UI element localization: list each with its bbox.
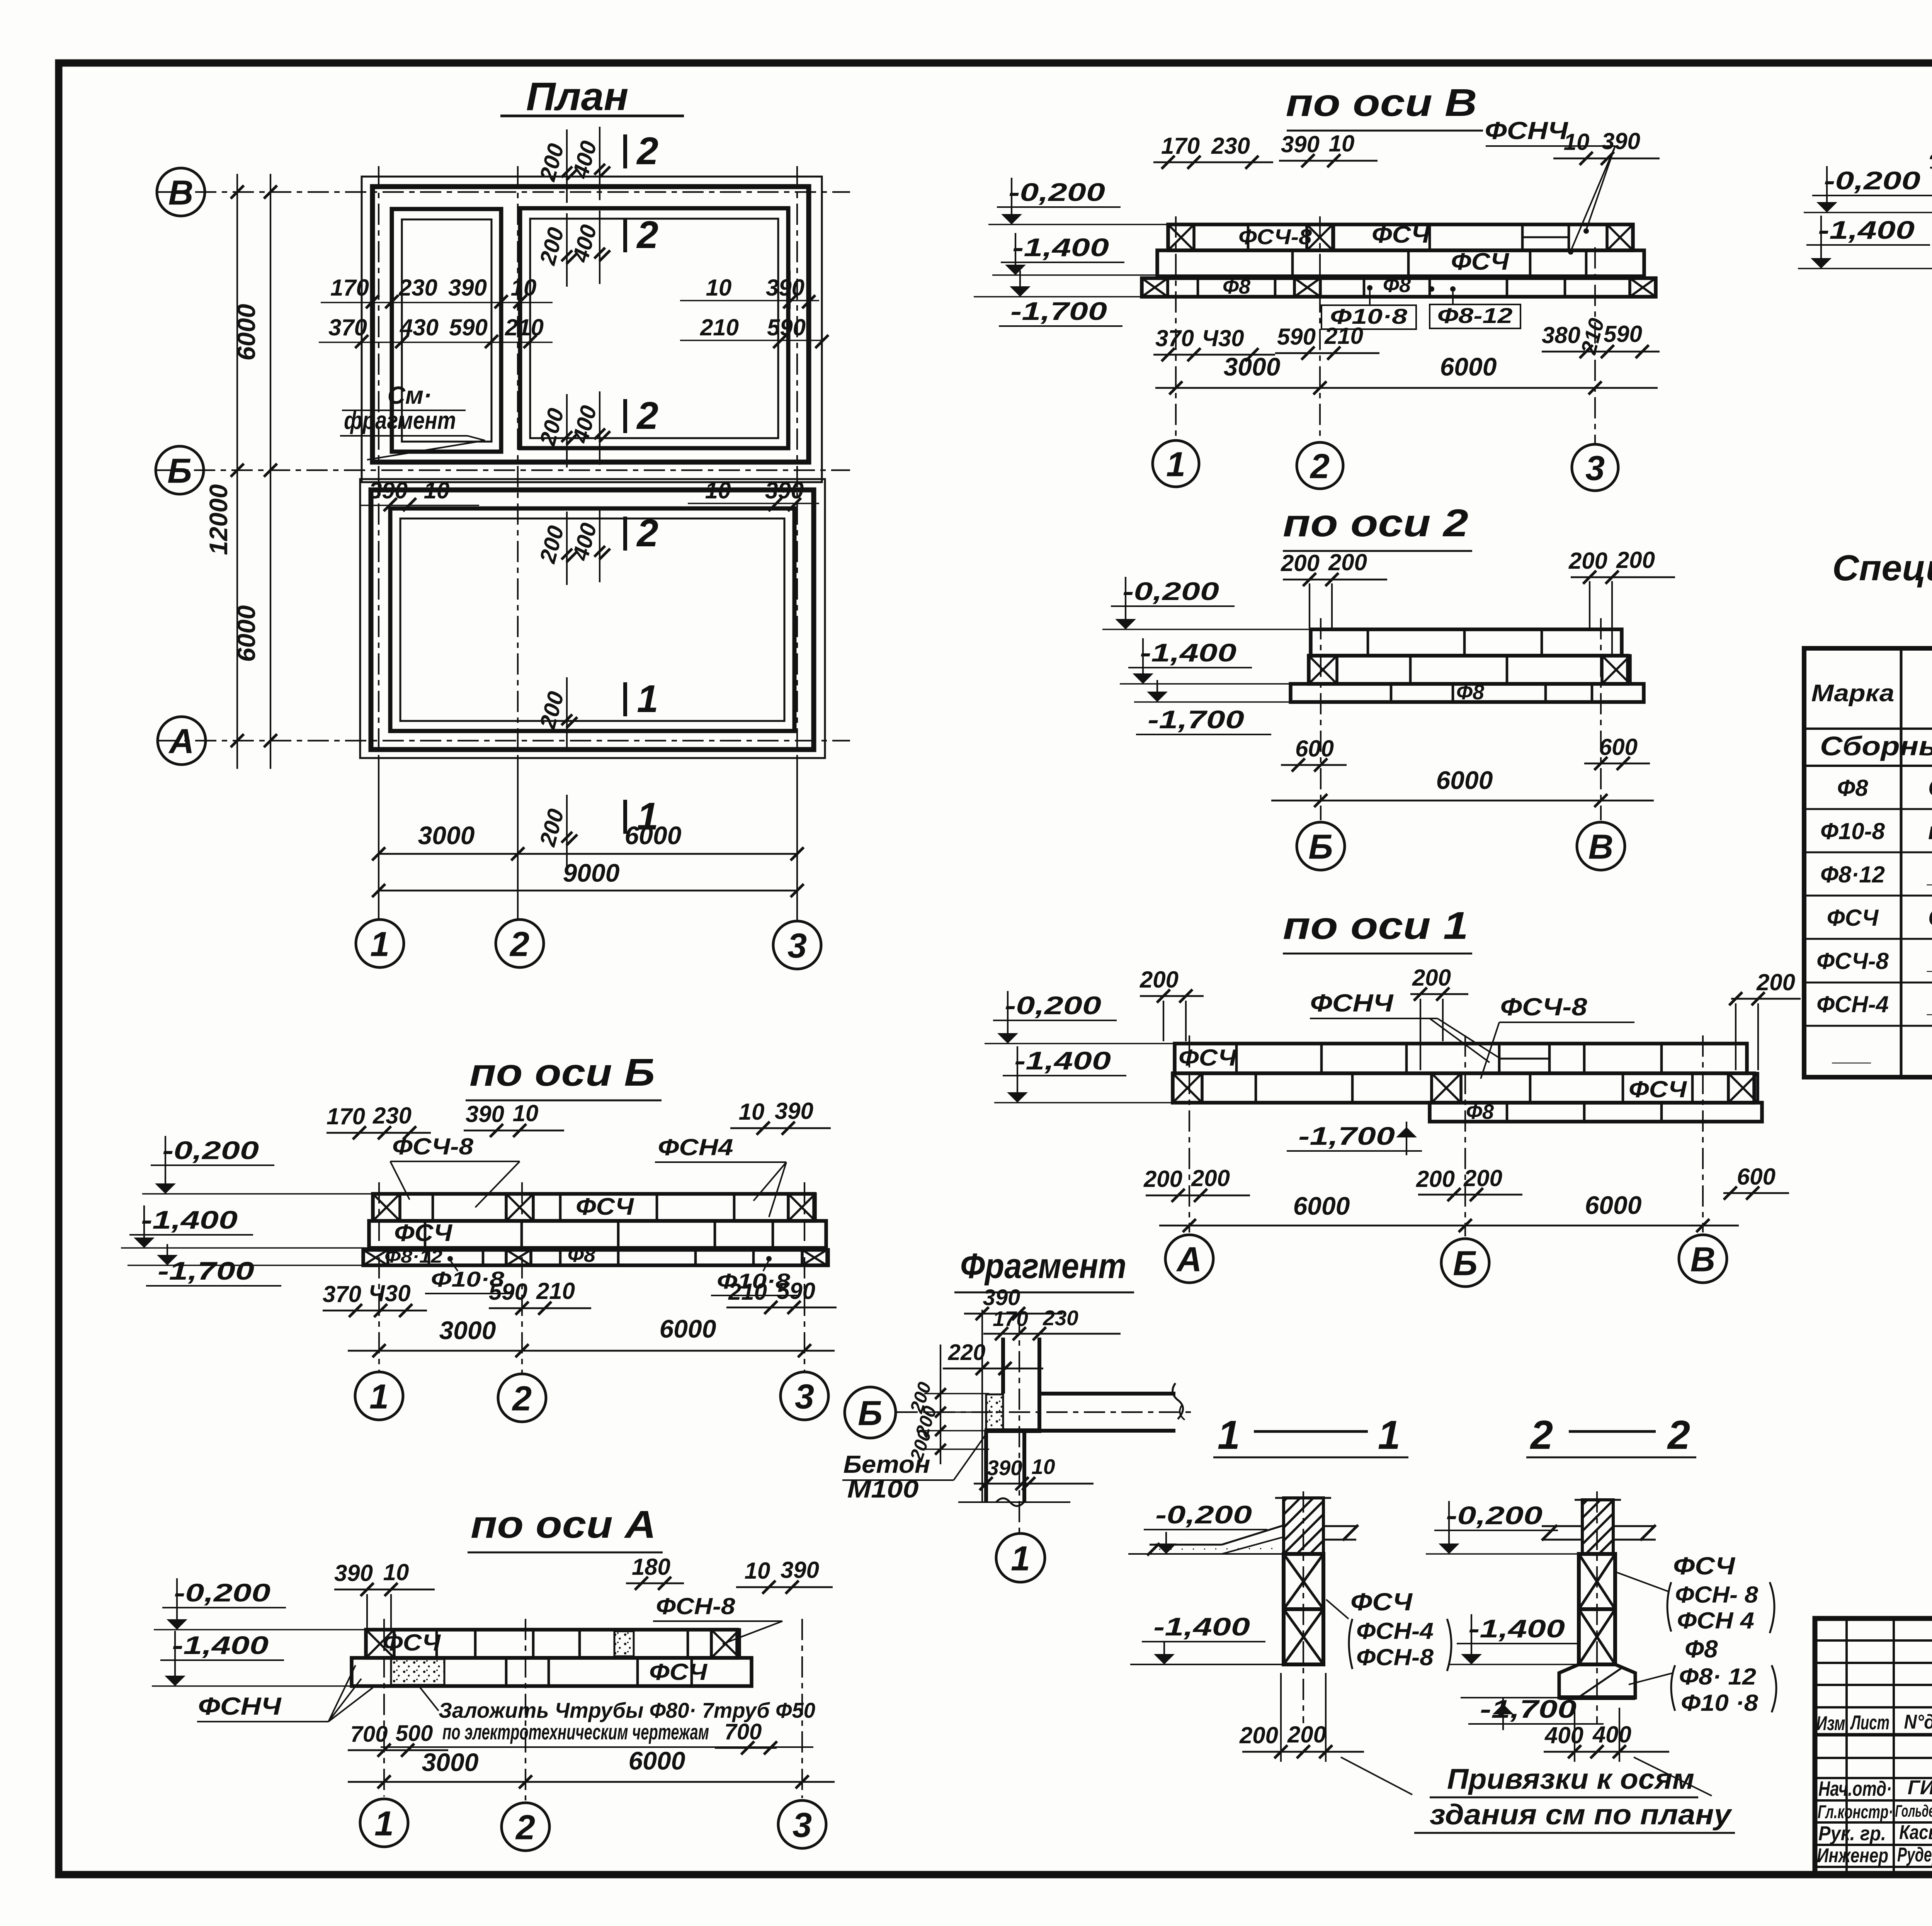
- svg-text:10: 10: [424, 478, 450, 503]
- svg-text:200: 200: [1416, 1166, 1455, 1192]
- svg-text:Ф8-12: Ф8-12: [1437, 303, 1513, 328]
- svg-text:500: 500: [396, 1721, 433, 1746]
- svg-text:590: 590: [777, 1278, 815, 1304]
- po osi V axis circles: [1153, 440, 1199, 487]
- svg-text:-1,400: -1,400: [1140, 638, 1236, 667]
- svg-text:Б: Б: [1308, 828, 1333, 866]
- svg-text:Гл.констр·: Гл.констр·: [1818, 1802, 1893, 1822]
- svg-text:1: 1: [1378, 1413, 1400, 1458]
- svg-text:Нач.отд·: Нач.отд·: [1818, 1777, 1892, 1800]
- svg-text:здания см по плану: здания см по плану: [1430, 1799, 1733, 1831]
- svg-text:Серия 1.112-1 вып.1: Серия 1.112-1 вып.1: [1928, 775, 1932, 801]
- svg-text:ФСЧ: ФСЧ: [394, 1220, 452, 1246]
- fragment axis 1 circle: [996, 1533, 1045, 1582]
- svg-text:380: 380: [1542, 322, 1580, 348]
- svg-text:Сборные железобетонные и бетон: Сборные железобетонные и бетонные элемен…: [1820, 731, 1932, 761]
- svg-text:200: 200: [1191, 1165, 1230, 1191]
- svg-text:12000: 12000: [204, 484, 233, 555]
- svg-text:1: 1: [369, 1377, 389, 1416]
- svg-text:-1,400: -1,400: [1012, 233, 1109, 262]
- svg-text:400: 400: [1592, 1722, 1631, 1748]
- svg-text:-0,200: -0,200: [1009, 178, 1105, 206]
- svg-text:3000: 3000: [439, 1316, 496, 1345]
- svg-text:200: 200: [1756, 969, 1795, 995]
- svg-text:590: 590: [1277, 324, 1316, 350]
- po osi A axis circles: [360, 1799, 408, 1847]
- note leader lines: [1341, 1757, 1412, 1795]
- section 2-2 floor stubs: [1542, 1525, 1582, 1527]
- svg-text:700: 700: [350, 1722, 388, 1747]
- svg-text:ФСЧ: ФСЧ: [576, 1193, 634, 1220]
- svg-text:ФСЧ-8: ФСЧ-8: [1816, 948, 1889, 974]
- svg-text:ФСЧ: ФСЧ: [1372, 221, 1430, 248]
- svg-text:200: 200: [1412, 965, 1451, 991]
- svg-text:Касьянова: Касьянова: [1899, 1821, 1932, 1844]
- svg-text:ФСЧ: ФСЧ: [1673, 1552, 1736, 1580]
- svg-text:-1,400: -1,400: [1818, 216, 1915, 244]
- title block left revision grid: [1815, 1639, 1932, 1642]
- svg-text:600: 600: [1599, 734, 1638, 760]
- svg-text:3000: 3000: [418, 821, 475, 850]
- svg-text:230: 230: [372, 1103, 412, 1129]
- svg-text:ФСЧ-8: ФСЧ-8: [1500, 993, 1587, 1021]
- svg-text:-1,400: -1,400: [1468, 1614, 1565, 1643]
- svg-text:Б: Б: [167, 452, 192, 490]
- svg-text:Лист: Лист: [1850, 1712, 1889, 1734]
- fragment junction bottom edge: [985, 1428, 1041, 1433]
- plan axis circles bottom: [356, 920, 404, 967]
- svg-text:9000: 9000: [563, 858, 620, 887]
- svg-text:700: 700: [724, 1719, 762, 1744]
- svg-text:390: 390: [466, 1101, 504, 1127]
- section 2-2 block column: [1579, 1554, 1615, 1609]
- svg-text:210: 210: [728, 1279, 767, 1305]
- svg-text:390: 390: [766, 275, 804, 301]
- svg-text:390: 390: [781, 1557, 819, 1583]
- plan south block outer walls: [371, 490, 814, 750]
- svg-text:Ф8· 12: Ф8· 12: [1679, 1664, 1756, 1690]
- svg-text:ФСН-8: ФСН-8: [1356, 1644, 1434, 1670]
- svg-text:В: В: [1588, 828, 1614, 866]
- plan north block foundation outline: [362, 177, 822, 482]
- svg-text:ФСН- 8: ФСН- 8: [1675, 1582, 1759, 1608]
- svg-text:-1,700: -1,700: [1010, 297, 1107, 325]
- po osi V axis dash-dot lines: [1175, 216, 1177, 439]
- svg-text:Рук. гр.: Рук. гр.: [1818, 1822, 1886, 1845]
- svg-text:ФСЧ: ФСЧ: [383, 1630, 441, 1656]
- svg-text:Ф10-8: Ф10-8: [1820, 818, 1885, 844]
- svg-text:6000: 6000: [1585, 1191, 1642, 1219]
- po osi A wall block rows: [366, 1630, 737, 1658]
- svg-text:ФСН-4: ФСН-4: [1816, 991, 1889, 1017]
- svg-text:10: 10: [706, 275, 732, 301]
- svg-text:3: 3: [793, 1806, 812, 1844]
- section 1-1 floor left with slope: [1128, 1553, 1284, 1555]
- svg-text:2: 2: [512, 1379, 532, 1418]
- svg-text:по оси 1: по оси 1: [1283, 904, 1468, 947]
- svg-text:10: 10: [513, 1100, 539, 1126]
- svg-text:М100: М100: [847, 1475, 919, 1503]
- svg-text:См·: См·: [388, 381, 432, 409]
- specification table grid: [1804, 648, 1932, 1077]
- svg-text:Рудеровская: Рудеровская: [1897, 1844, 1932, 1866]
- svg-text:2: 2: [509, 925, 529, 964]
- svg-text:-1,400: -1,400: [172, 1631, 269, 1659]
- svg-text:Изм: Изм: [1816, 1712, 1845, 1735]
- section 2-2 wall hatched: [1582, 1500, 1613, 1554]
- svg-text:Ф8: Ф8: [1466, 1100, 1494, 1124]
- svg-text:ФСЧ: ФСЧ: [1827, 905, 1879, 931]
- svg-text:200: 200: [1616, 547, 1655, 573]
- svg-text:210: 210: [505, 314, 544, 340]
- po osi 1 foundation plate row: [1430, 1103, 1762, 1122]
- plan south block foundation outline: [360, 479, 825, 758]
- svg-text:Б: Б: [1453, 1244, 1478, 1283]
- svg-text:1: 1: [374, 1804, 394, 1843]
- svg-text:ФСЧ: ФСЧ: [1179, 1045, 1237, 1071]
- svg-text:370: 370: [323, 1281, 361, 1307]
- svg-text:ФСНЧ: ФСНЧ: [1310, 989, 1394, 1017]
- svg-text:230: 230: [1043, 1306, 1078, 1330]
- svg-text:Серия 1.116·1 вып.1: Серия 1.116·1 вып.1: [1928, 904, 1932, 931]
- plan north block outer walls: [372, 187, 809, 462]
- svg-text:200: 200: [1143, 1166, 1182, 1192]
- svg-text:ФСЧ: ФСЧ: [1629, 1076, 1687, 1102]
- svg-text:В: В: [168, 173, 194, 212]
- svg-text:Ф8: Ф8: [1383, 274, 1411, 297]
- plan bottom dimension lines: [379, 853, 797, 855]
- po osi A axis dash-dot lines: [383, 1619, 385, 1797]
- svg-text:А: А: [1176, 1240, 1202, 1279]
- svg-text:200: 200: [1239, 1722, 1278, 1748]
- svg-text:Привязки к осям: Привязки к осям: [1447, 1763, 1694, 1795]
- po osi 1 axis dash-dot lines: [1189, 1035, 1190, 1232]
- svg-text:6000: 6000: [232, 304, 260, 360]
- svg-text:10: 10: [1031, 1455, 1055, 1479]
- svg-text:Спецификация элементов к марки: Спецификация элементов к маркировочной: [1832, 547, 1932, 588]
- svg-text:230: 230: [1211, 133, 1250, 159]
- svg-text:200: 200: [1328, 549, 1367, 575]
- svg-text:10: 10: [705, 478, 731, 503]
- svg-text:Б: Б: [858, 1394, 883, 1433]
- svg-text:2: 2: [1667, 1413, 1690, 1458]
- svg-text:-0,200: -0,200: [162, 1136, 259, 1164]
- svg-text:400: 400: [1544, 1722, 1583, 1748]
- svg-text:10: 10: [383, 1559, 409, 1585]
- svg-text:170: 170: [330, 275, 369, 301]
- fragment horizontal wall to right: [1039, 1392, 1175, 1396]
- plan witness lines at north rooms: [372, 270, 373, 309]
- svg-text:2: 2: [636, 129, 658, 173]
- svg-text:220: 220: [948, 1340, 986, 1365]
- svg-text:то же: то же: [1928, 818, 1932, 845]
- svg-text:1: 1: [370, 925, 389, 964]
- plan south room inner walls: [390, 508, 794, 731]
- svg-text:390: 390: [1281, 131, 1320, 157]
- svg-text:10: 10: [1329, 131, 1355, 156]
- plan axis circles left: [157, 168, 205, 216]
- svg-text:А: А: [168, 722, 194, 761]
- fragment axis B circle: [845, 1387, 896, 1438]
- svg-text:6000: 6000: [1440, 352, 1497, 381]
- svg-text:210: 210: [1324, 323, 1363, 349]
- svg-text:230: 230: [398, 275, 437, 301]
- svg-text:Ф10 ·8: Ф10 ·8: [1681, 1690, 1759, 1716]
- svg-text:1: 1: [1218, 1413, 1240, 1458]
- svg-text:1: 1: [637, 677, 658, 721]
- svg-text:390: 390: [987, 1456, 1022, 1480]
- section 2-2 footing: [1559, 1664, 1635, 1698]
- po osi 1 axis circles: [1165, 1235, 1213, 1283]
- svg-text:200: 200: [1139, 967, 1179, 993]
- svg-text:6000: 6000: [1293, 1192, 1350, 1220]
- svg-text:ФСНЧ: ФСНЧ: [1485, 117, 1569, 144]
- svg-text:390: 390: [448, 275, 487, 301]
- svg-text:6000: 6000: [660, 1314, 716, 1343]
- svg-text:ФСЧ: ФСЧ: [649, 1659, 708, 1685]
- svg-text:1: 1: [1011, 1539, 1030, 1578]
- svg-text:ФСЧ-8: ФСЧ-8: [1238, 224, 1312, 249]
- section 1-1 block column: [1284, 1554, 1323, 1609]
- svg-text:210: 210: [700, 314, 739, 340]
- svg-text:ФСН-4: ФСН-4: [1356, 1618, 1434, 1644]
- svg-text:590: 590: [489, 1279, 527, 1305]
- plan north-west room walls: [392, 209, 501, 452]
- svg-text:2: 2: [1530, 1413, 1553, 1458]
- svg-text:2: 2: [636, 394, 658, 437]
- fragment axis B dash line: [896, 1411, 1192, 1413]
- svg-text:6000: 6000: [1436, 766, 1493, 794]
- svg-text:390: 390: [1602, 128, 1640, 154]
- svg-text:План: План: [526, 74, 629, 119]
- svg-text:Ф8·12: Ф8·12: [1820, 862, 1885, 887]
- svg-text:-1,700: -1,700: [1298, 1122, 1395, 1150]
- po osi V F10-8 F8-12 boxed labels: [1367, 285, 1372, 291]
- svg-text:3: 3: [795, 1377, 814, 1416]
- fragment lower wall plan lines: [984, 1431, 988, 1502]
- svg-text:-1,400: -1,400: [1014, 1046, 1111, 1075]
- svg-text:10: 10: [739, 1099, 765, 1125]
- po osi 2 axis circles: [1297, 822, 1345, 870]
- svg-text:-0,200: -0,200: [1122, 577, 1219, 605]
- svg-text:ФСНЧ: ФСНЧ: [198, 1692, 282, 1720]
- svg-text:Фрагмент: Фрагмент: [960, 1246, 1126, 1286]
- fragment witness line left: [981, 1310, 983, 1502]
- svg-text:Ф8: Ф8: [1456, 681, 1484, 704]
- svg-text:Марка: Марка: [1811, 680, 1895, 707]
- svg-text:Гольденшплюгер: Гольденшплюгер: [1895, 1802, 1932, 1821]
- section 1-1 right floor stub: [1323, 1525, 1356, 1527]
- svg-text:590: 590: [1604, 321, 1642, 347]
- svg-text:200: 200: [1463, 1165, 1502, 1191]
- svg-text:-0,200: -0,200: [1155, 1500, 1252, 1529]
- svg-text:370: 370: [328, 314, 367, 340]
- svg-text:-1,400: -1,400: [141, 1205, 238, 1234]
- svg-text:180: 180: [632, 1554, 670, 1580]
- svg-text:ФСН4: ФСН4: [658, 1134, 733, 1160]
- svg-text:по оси Б: по оси Б: [469, 1051, 655, 1094]
- plan north-east room walls: [520, 208, 788, 448]
- svg-text:ФСН-8: ФСН-8: [656, 1593, 736, 1619]
- section 2-2 axis line: [1596, 1491, 1598, 1723]
- po osi B axis dash-dot lines: [378, 1182, 380, 1371]
- svg-text:2: 2: [1310, 447, 1330, 486]
- svg-text:ФСН 4: ФСН 4: [1677, 1608, 1754, 1634]
- svg-text:-0,200: -0,200: [1005, 991, 1101, 1020]
- section 1-1 wall hatched: [1284, 1498, 1323, 1554]
- svg-text:по оси В: по оси В: [1286, 81, 1477, 124]
- svg-text:ГИЧ: ГИЧ: [1908, 1776, 1932, 1799]
- svg-text:-0,200: -0,200: [174, 1578, 270, 1607]
- svg-text:3: 3: [787, 926, 807, 965]
- svg-text:Бетон: Бетон: [844, 1450, 930, 1478]
- title block outer box: [1815, 1618, 1932, 1875]
- svg-text:2: 2: [515, 1808, 535, 1847]
- svg-text:-1,700: -1,700: [158, 1256, 254, 1285]
- svg-text:2: 2: [636, 213, 658, 257]
- svg-text:600: 600: [1737, 1164, 1776, 1190]
- plan left vertical dimension chain: [236, 174, 238, 769]
- svg-text:Ф8: Ф8: [1223, 275, 1250, 298]
- po osi 2 wall block rows: [1311, 629, 1622, 656]
- fragment axis 1 dash line: [1019, 1314, 1020, 1533]
- svg-text:10: 10: [745, 1558, 770, 1584]
- svg-text:Инженер: Инженер: [1817, 1844, 1888, 1867]
- po osi B foundation plate row: [363, 1250, 828, 1265]
- svg-text:390: 390: [775, 1098, 813, 1124]
- svg-text:ФСЧ: ФСЧ: [1451, 248, 1509, 275]
- svg-text:Заложить Чтрубы Ф80· 7труб Ф5: Заложить Чтрубы Ф80· 7труб Ф50: [439, 1698, 815, 1722]
- svg-text:по оси А: по оси А: [471, 1503, 656, 1546]
- svg-text:590: 590: [449, 314, 488, 340]
- svg-text:N°докум.: N°докум.: [1904, 1711, 1932, 1733]
- svg-text:170: 170: [327, 1103, 365, 1129]
- po osi V wall block rows: [1168, 224, 1633, 250]
- plan axis dash-dot lines: [158, 191, 850, 193]
- svg-text:Ч30: Ч30: [368, 1280, 410, 1306]
- svg-text:Ф8: Ф8: [1837, 775, 1868, 801]
- svg-text:3: 3: [1585, 449, 1605, 488]
- svg-text:Ч30: Ч30: [1202, 325, 1244, 351]
- svg-text:-0,200: -0,200: [1446, 1501, 1543, 1530]
- svg-text:3000: 3000: [422, 1748, 479, 1776]
- svg-text:370: 370: [1155, 325, 1194, 351]
- svg-text:Ф8: Ф8: [1685, 1635, 1718, 1663]
- svg-text:6000: 6000: [232, 605, 260, 662]
- svg-text:В: В: [1690, 1240, 1716, 1279]
- svg-text:-0,200: -0,200: [1824, 166, 1920, 195]
- svg-text:200: 200: [1568, 548, 1607, 574]
- svg-text:по оси 2: по оси 2: [1283, 501, 1468, 545]
- po osi 2 axis dash-dot lines: [1320, 618, 1321, 820]
- section 1-1 axis line: [1303, 1491, 1304, 1723]
- svg-text:6000: 6000: [625, 821, 682, 850]
- svg-text:3000: 3000: [1224, 352, 1281, 381]
- svg-text:390: 390: [369, 478, 408, 503]
- svg-text:170: 170: [1161, 133, 1200, 159]
- svg-text:200: 200: [1930, 138, 1932, 164]
- svg-text:Ф8: Ф8: [568, 1243, 595, 1266]
- po osi B wall block rows: [373, 1194, 814, 1221]
- svg-text:2: 2: [636, 512, 658, 555]
- fragment left 200 dims: [924, 1393, 989, 1394]
- svg-text:6000: 6000: [629, 1746, 685, 1775]
- po osi B axis circles: [355, 1372, 403, 1420]
- svg-text:-1,400: -1,400: [1153, 1612, 1250, 1641]
- fragment concrete patch: [986, 1394, 1003, 1430]
- svg-text:210: 210: [536, 1278, 575, 1304]
- svg-text:200: 200: [1281, 550, 1320, 576]
- svg-text:-1,700: -1,700: [1148, 705, 1244, 734]
- svg-text:Ф8·12: Ф8·12: [384, 1246, 442, 1266]
- svg-text:по электротехническим чертежам: по электротехническим чертежам: [442, 1720, 709, 1744]
- svg-text:ФСЧ-8: ФСЧ-8: [392, 1134, 474, 1159]
- svg-text:1: 1: [1166, 445, 1185, 484]
- fragment upper wall plan lines: [1001, 1338, 1005, 1394]
- svg-text:170: 170: [993, 1307, 1028, 1331]
- svg-text:200: 200: [1287, 1722, 1326, 1748]
- svg-text:600: 600: [1295, 736, 1334, 762]
- svg-text:-1,700: -1,700: [1480, 1695, 1577, 1723]
- svg-text:___: ___: [1832, 1040, 1872, 1066]
- svg-text:390: 390: [334, 1560, 373, 1586]
- po osi 1 wall block rows: [1175, 1044, 1747, 1073]
- svg-text:ФСЧ: ФСЧ: [1350, 1588, 1413, 1616]
